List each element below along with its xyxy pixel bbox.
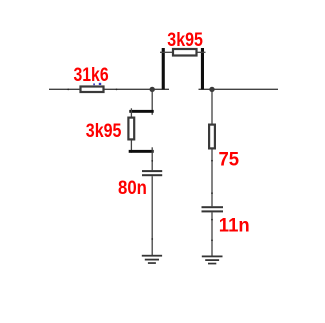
- resistor R4 value 75 (vertical box): [209, 125, 215, 149]
- svg-text:11n: 11n: [219, 215, 250, 237]
- wire joint dots: [67, 89, 213, 242]
- svg-text:75: 75: [219, 149, 240, 171]
- wire: bottom bar down to capacitor C1: [151, 147, 153, 170]
- wire: top resistor left lead: [160, 51, 172, 53]
- pin: thick left lead of top resistor: [162, 48, 165, 89]
- node A junction dot left: [150, 87, 155, 92]
- wire: right main horizontal segment: [199, 88, 279, 90]
- svg-text:31k6: 31k6: [74, 63, 109, 85]
- label tiny blue marks above R1: [93, 83, 101, 85]
- wire: lead from vertical resistor to bottom bar: [130, 141, 132, 153]
- resistor R3 value 3k95 (vertical box): [128, 118, 134, 140]
- pin: thick top bar of vertical resistor: [129, 110, 153, 113]
- label 3k95 (vertical resistor): [86, 120, 122, 142]
- pin: thick bottom bar of vertical resistor: [129, 150, 154, 153]
- wire: top resistor right lead: [198, 51, 206, 53]
- wire: capacitor C1 down to ground: [151, 176, 153, 255]
- capacitor C2 value 11n: [202, 206, 224, 212]
- label 11n: [219, 215, 250, 237]
- capacitor C1 value 80n: [142, 170, 162, 176]
- svg-text:3k95: 3k95: [86, 120, 122, 142]
- label 75: [219, 149, 240, 171]
- ground (right): [202, 256, 223, 265]
- label 3k95 (top): [167, 29, 203, 51]
- wire: lead from top bar to vertical resistor: [130, 108, 132, 117]
- wire: left main horizontal segment: [49, 88, 169, 90]
- wire: node A down to shunt resistor top bar: [151, 89, 153, 114]
- wire: resistor 75 down to capacitor C2: [211, 150, 213, 207]
- ground (left): [142, 255, 162, 264]
- svg-text:80n: 80n: [118, 177, 147, 198]
- pin: thick right lead of top resistor: [201, 48, 204, 89]
- resistor R1 value 31k6 (horizontal box): [81, 87, 104, 93]
- resistor R2 value 3k95 (top horizontal box): [173, 49, 197, 56]
- svg-text:3k95: 3k95: [167, 29, 203, 51]
- node B junction dot right: [209, 87, 214, 92]
- label 31k6: [74, 63, 109, 85]
- label 80n: [118, 177, 147, 198]
- wire: node B down to resistor 75: [211, 89, 213, 124]
- wire: capacitor C2 down to ground: [211, 212, 213, 255]
